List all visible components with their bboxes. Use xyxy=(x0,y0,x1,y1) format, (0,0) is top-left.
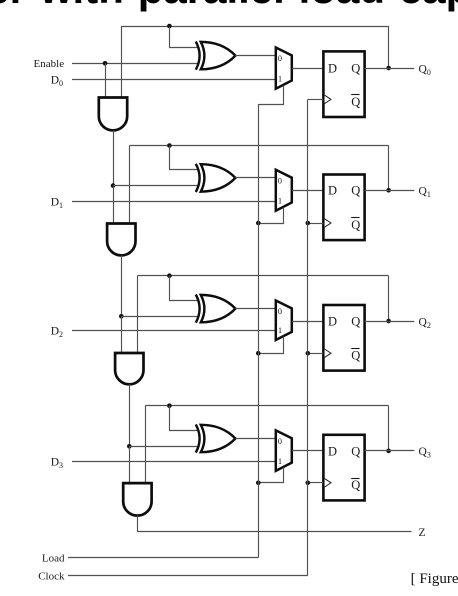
wire MUX2 select xyxy=(259,208,284,224)
svg-text:1: 1 xyxy=(278,74,282,84)
wire Q0 feedback right riser xyxy=(388,26,390,68)
wire tap down to XOR3 top input xyxy=(170,276,199,301)
mux M4 xyxy=(276,430,292,470)
wire Enable line xyxy=(72,63,198,65)
wire clock into FF1 xyxy=(308,99,324,101)
and gate A3 xyxy=(115,353,143,384)
svg-text:0: 0 xyxy=(278,436,282,446)
wire Clock vertical bus xyxy=(307,99,309,575)
svg-text:Enable: Enable xyxy=(34,58,65,70)
wire Clock input line xyxy=(68,575,308,577)
wire MUX3 select xyxy=(259,337,284,354)
wire XOR4 output to MUX4 input 0 xyxy=(235,438,275,440)
xor gate X2 xyxy=(196,164,200,192)
wire carry down to AND2 input 1 xyxy=(113,186,115,224)
mux M1 xyxy=(276,48,292,89)
mux M3 xyxy=(276,301,292,341)
wire D1 input line xyxy=(72,201,276,203)
wire Q1 output xyxy=(365,190,415,192)
svg-text:Q3: Q3 xyxy=(419,446,431,460)
junction Enable to AND1 xyxy=(103,61,108,66)
d flip-flop FF2 xyxy=(323,175,364,241)
junction clock tap stage 3 xyxy=(306,351,311,356)
wire clock into FF3 xyxy=(308,353,324,355)
wire carry from AND1 output down xyxy=(113,130,115,185)
wire Q0 output xyxy=(365,68,415,70)
wire D3 input line xyxy=(72,461,276,463)
svg-text:Z: Z xyxy=(419,527,426,539)
wire Z output from AND4 xyxy=(138,516,412,532)
wire clock into FF2 xyxy=(308,223,324,225)
d flip-flop FF4 xyxy=(323,435,364,501)
wire carry to XOR4 bottom input xyxy=(129,446,198,448)
wire MUX3 output to FF3 D input xyxy=(292,321,324,323)
mux M2 xyxy=(276,170,292,211)
svg-text:Q: Q xyxy=(351,184,360,198)
svg-text:D3: D3 xyxy=(51,457,63,471)
junction top-line tap stage 4 xyxy=(167,403,172,408)
svg-text:Q0: Q0 xyxy=(419,63,431,77)
wire D0 input line xyxy=(72,79,276,81)
svg-text:Q: Q xyxy=(351,444,360,458)
wire Q1 feedback left drop to AND2 input 2 xyxy=(129,146,131,224)
svg-text:Q: Q xyxy=(351,348,360,362)
xor gate X4 xyxy=(196,424,200,452)
wire tap down to XOR4 top input xyxy=(170,406,199,431)
wire Load vertical bus xyxy=(258,104,260,558)
wire clock into FF4 xyxy=(308,482,324,484)
junction on Q2 output line xyxy=(386,319,391,324)
wire tap down to XOR2 top input xyxy=(170,146,199,170)
d flip-flop FF3 xyxy=(323,305,364,371)
wire D2 input line xyxy=(72,330,276,332)
wire XOR3 output to MUX3 input 0 xyxy=(235,308,275,310)
junction carry tap stage 4 xyxy=(127,444,132,449)
junction top-line tap stage 3 xyxy=(167,273,172,278)
junction select on Load line stage 2 xyxy=(256,221,261,226)
wire MUX1 output to FF1 D input xyxy=(292,68,324,70)
wire Q1 feedback top line stage 2 xyxy=(130,145,389,147)
svg-text:Q: Q xyxy=(351,218,360,232)
wire carry down to AND3 input 1 xyxy=(121,316,123,353)
caption fragment xyxy=(411,571,458,588)
wire Q3 feedback top line stage 4 xyxy=(145,405,388,407)
wire Enable drop to AND1 input 1 xyxy=(105,63,107,97)
d flip-flop FF1 xyxy=(323,51,364,117)
wire Load input line xyxy=(68,557,258,559)
wire Q0 feedback left drop to AND1 input 2 xyxy=(121,26,123,98)
wire Q2 output xyxy=(365,321,415,323)
junction clock tap stage 2 xyxy=(306,221,311,226)
junction top-line tap stage 1 xyxy=(167,24,172,29)
junction carry tap stage 3 xyxy=(119,314,124,319)
wire Q2 feedback top line stage 3 xyxy=(138,275,389,277)
junction on Q1 output line xyxy=(386,188,391,193)
wire tap down to XOR1 top input xyxy=(170,27,199,48)
wire carry to XOR3 bottom input xyxy=(121,316,198,318)
svg-text:1: 1 xyxy=(278,325,282,335)
wire carry down to AND4 input 1 xyxy=(129,446,131,483)
svg-text:Q: Q xyxy=(351,95,360,109)
svg-text:D0: D0 xyxy=(51,74,63,88)
wire MUX2 output to FF2 D input xyxy=(292,190,324,192)
and gate A4 xyxy=(123,483,151,516)
wire Q2 feedback left drop to AND3 input 2 xyxy=(137,276,139,353)
svg-text:Q2: Q2 xyxy=(419,316,431,330)
junction clock tap stage 4 xyxy=(306,481,311,486)
junction carry tap stage 2 xyxy=(111,183,116,188)
wire carry to XOR2 bottom input xyxy=(113,185,198,187)
junction select on Load line stage 3 xyxy=(256,351,261,356)
wire Q3 output xyxy=(365,450,415,452)
svg-text:1: 1 xyxy=(278,456,282,466)
wire Q1 feedback right riser xyxy=(388,146,390,191)
junction on Q3 output line xyxy=(386,449,391,454)
wire XOR1 output to MUX1 input 0 xyxy=(235,55,275,57)
svg-text:D1: D1 xyxy=(51,196,63,210)
wire MUX4 select xyxy=(259,468,284,483)
wire MUX1 select xyxy=(259,86,284,105)
xor gate X3 xyxy=(196,295,200,323)
svg-text:Q: Q xyxy=(351,314,360,328)
wire carry from AND2 output down xyxy=(121,255,123,316)
xor gate X1 xyxy=(196,42,200,70)
svg-text:Q: Q xyxy=(351,478,360,492)
wire MUX4 output to FF4 D input xyxy=(292,450,324,452)
svg-text:D: D xyxy=(328,184,337,198)
svg-text:D: D xyxy=(328,444,337,458)
svg-text:0: 0 xyxy=(278,175,282,185)
title heading (cropped) xyxy=(0,0,458,13)
and gate A2 xyxy=(107,224,135,256)
junction on Q0 output line xyxy=(386,66,391,71)
wire Q3 feedback left drop to AND4 input 2 xyxy=(145,406,147,483)
junction select on Load line stage 4 xyxy=(256,481,261,486)
svg-text:Q: Q xyxy=(351,61,360,75)
svg-text:Clock: Clock xyxy=(38,571,65,583)
svg-text:Load: Load xyxy=(42,553,65,565)
svg-text:D2: D2 xyxy=(51,326,63,340)
svg-text:0: 0 xyxy=(278,53,282,63)
svg-text:D: D xyxy=(328,314,337,328)
wire XOR2 output to MUX2 input 0 xyxy=(235,177,275,179)
wire carry from AND3 output down xyxy=(129,384,131,446)
junction top-line tap stage 2 xyxy=(167,143,172,148)
svg-text:D: D xyxy=(328,61,337,75)
and gate A1 xyxy=(99,98,127,131)
wire Q0 feedback top line stage 1 xyxy=(121,26,388,28)
wire Q3 feedback right riser xyxy=(388,406,390,451)
svg-text:Q1: Q1 xyxy=(419,186,431,200)
svg-text:1: 1 xyxy=(278,196,282,206)
svg-text:0: 0 xyxy=(278,306,282,316)
wire Q2 feedback right riser xyxy=(388,276,390,321)
